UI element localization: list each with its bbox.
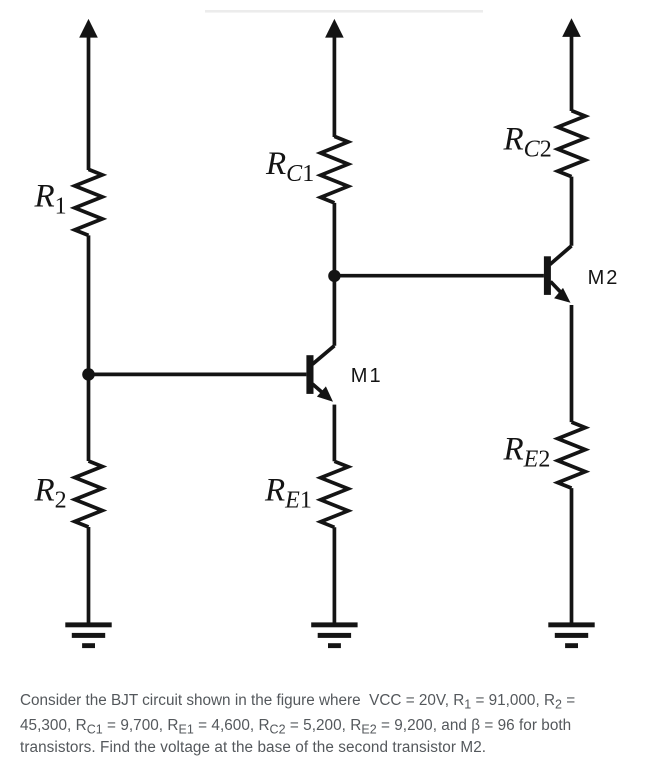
ground (middle) (311, 622, 357, 648)
wire: RC1 bottom to node B (333, 203, 337, 276)
VCC arrow (middle branch) (325, 19, 344, 137)
resistor RE1 (321, 461, 349, 527)
wire: RE1 bottom to ground (333, 527, 337, 625)
VCC arrow (left branch) (79, 19, 98, 170)
wire: M2 emitter to RE2 (570, 305, 574, 422)
svg-text:RE1: RE1 (264, 473, 312, 514)
node B (RC1/M1-collector/M2-base junction) (328, 270, 340, 282)
resistor RC2 (558, 111, 586, 177)
caption text line 3 (20, 739, 486, 757)
caption text line 2 (20, 717, 571, 735)
svg-text:RE2: RE2 (503, 432, 551, 473)
svg-text:RC1: RC1 (265, 146, 314, 187)
transistor M2 (544, 246, 572, 303)
resistor R1 (75, 169, 103, 235)
svg-text:RC2: RC2 (503, 122, 552, 163)
wire: RE2 bottom to ground (570, 488, 574, 625)
faint cropped-text smudge at top (205, 10, 483, 13)
wire: node B to M2 base (334, 274, 544, 278)
wire: node A to R2 (87, 374, 91, 461)
svg-text:M2: M2 (588, 267, 620, 289)
ground (right) (548, 622, 594, 648)
wire: node A to M1 base (89, 373, 307, 377)
VCC arrow (right branch) (562, 18, 581, 111)
resistor RE2 (558, 422, 586, 488)
node A (R1/R2/M1-base junction) (82, 368, 95, 381)
wire: R2 bottom to ground (87, 527, 91, 625)
svg-text:R1: R1 (34, 179, 67, 220)
wire: RC2 bottom to M2 collector (570, 177, 574, 246)
wire: node B to M1 collector (333, 276, 337, 346)
resistor RC1 (321, 136, 349, 203)
transistor M1 (306, 346, 334, 402)
wire: R1 bottom to node A (87, 235, 91, 374)
wire: M1 emitter to RE1 (333, 405, 337, 462)
caption text line 1 (20, 692, 575, 710)
ground (left) (65, 622, 111, 648)
resistor R2 (75, 461, 103, 527)
svg-text:R2: R2 (34, 473, 67, 514)
svg-text:M1: M1 (351, 365, 383, 387)
